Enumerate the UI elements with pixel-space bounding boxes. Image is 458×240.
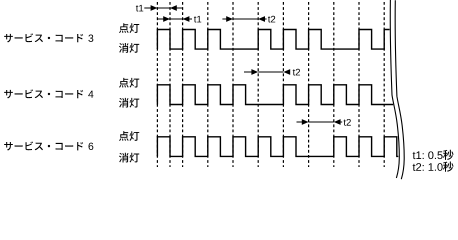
dimension t2 (row 1) (222, 18, 228, 20)
waveform service code 4 (157, 85, 393, 105)
dimension t2 (row 2) (244, 71, 252, 73)
label ON (tento) (119, 131, 139, 141)
gridline 6 (x=258.2) (257, 2, 259, 167)
break mark left curve (390, 0, 399, 178)
legend t1: 0.5s (413, 151, 443, 159)
gridline 9 (x=333.8) (333, 2, 335, 167)
label OFF (shoto) (119, 153, 139, 163)
label ON (tento) (119, 78, 139, 88)
gridline 4 (x=207.8) (207, 2, 209, 167)
legend t2: 1.0s (413, 163, 443, 171)
label service code 4 (4, 89, 83, 98)
gridline 5 (x=233.0) (232, 2, 234, 167)
label service code 3 (4, 33, 83, 42)
gridline 7 (x=283.4) (282, 2, 284, 167)
dimension t1 (second interval) label (194, 16, 201, 23)
gridline 11 (x=384.2) (383, 2, 385, 167)
break mark right curve (395, 0, 404, 179)
waveform service code 3 (157, 30, 389, 50)
dimension t1 (second interval) arrows (157, 18, 189, 20)
gridline 2 (x=170.0) (169, 2, 171, 167)
gridline 1 (x=157.4) (156, 2, 158, 167)
label OFF (shoto) (119, 43, 139, 53)
label ON (tento) (119, 23, 139, 33)
dimension t2 (row 3) (297, 121, 303, 123)
label OFF (shoto) (119, 98, 139, 108)
label service code 6 (4, 141, 83, 150)
gridline 3 (x=182.6) (182, 2, 184, 167)
gridline 10 (x=359.0) (358, 2, 360, 167)
gridline 8 (x=308.6) (308, 2, 310, 167)
dimension t1 (first interval) arrows (144, 7, 182, 9)
dimension t1 (first interval) label (136, 5, 143, 12)
waveform service code 6 (157, 137, 398, 157)
